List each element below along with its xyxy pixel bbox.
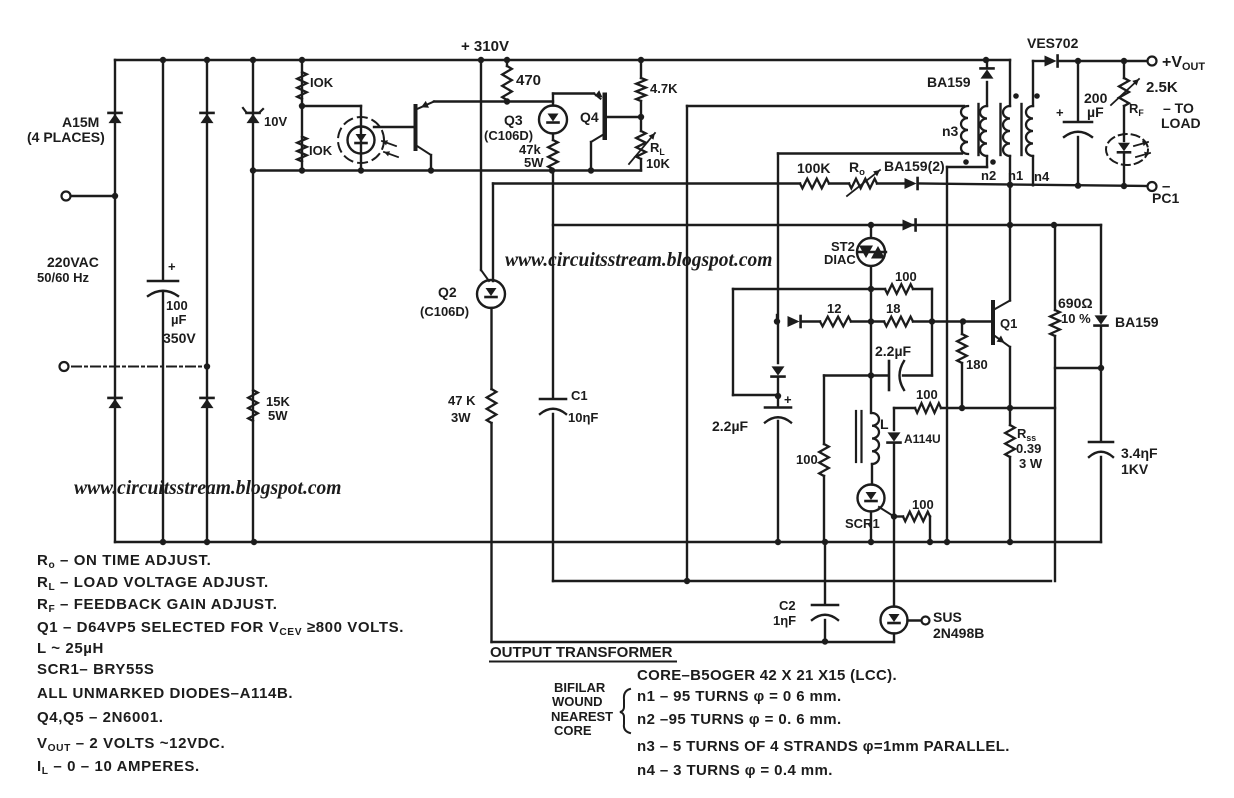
svg-text:Q2: Q2 (438, 284, 457, 300)
svg-text:n2 –95 TURNS φ = 0. 6 mm.: n2 –95 TURNS φ = 0. 6 mm. (637, 711, 842, 728)
svg-text:PC1: PC1 (1152, 190, 1179, 206)
svg-text:100: 100 (166, 298, 188, 313)
svg-text:+ 310V: + 310V (461, 38, 509, 55)
svg-text:BIFILAR: BIFILAR (554, 680, 606, 695)
svg-text:IOK: IOK (309, 143, 333, 158)
svg-text:350V: 350V (163, 330, 196, 346)
svg-text:BA159: BA159 (1115, 314, 1159, 330)
svg-text:220VAC: 220VAC (47, 254, 99, 270)
svg-text:Q1 – D64VP5 SELECTED FOR VCEV: Q1 – D64VP5 SELECTED FOR VCEV ≥800 VOLTS… (37, 619, 404, 638)
svg-text:C2: C2 (779, 598, 796, 613)
svg-text:100: 100 (916, 387, 938, 402)
svg-text:690Ω: 690Ω (1058, 295, 1093, 311)
svg-text:n2: n2 (981, 168, 996, 183)
svg-text:+: + (168, 259, 176, 274)
svg-text:RL: RL (650, 140, 665, 157)
svg-text:LOAD: LOAD (1161, 115, 1201, 131)
svg-text:SCR1– BRY55S: SCR1– BRY55S (37, 661, 155, 678)
svg-text:(C106D): (C106D) (420, 304, 469, 319)
svg-text:2N498B: 2N498B (933, 625, 984, 641)
svg-text:(C106D): (C106D) (484, 128, 533, 143)
svg-text:180: 180 (966, 357, 988, 372)
svg-text:A15M: A15M (62, 114, 99, 130)
svg-text:n3 – 5 TURNS OF 4 STRANDS φ: n3 – 5 TURNS OF 4 STRANDS φ=1mm PARALLEL… (637, 738, 1010, 755)
svg-text:n1: n1 (1008, 168, 1023, 183)
svg-text:Q4: Q4 (580, 109, 599, 125)
svg-text:IL – 0 – 10 AMPERES.: IL – 0 – 10 AMPERES. (37, 758, 200, 777)
svg-text:Ro – ON TIME ADJUST.: Ro – ON TIME ADJUST. (37, 552, 211, 571)
svg-text:A114U: A114U (904, 432, 941, 446)
svg-text:BA159(2): BA159(2) (884, 158, 945, 174)
svg-text:12: 12 (827, 301, 841, 316)
svg-text:2.2µF: 2.2µF (875, 343, 912, 359)
svg-text:+: + (1056, 105, 1064, 120)
svg-text:RF: RF (1129, 101, 1144, 118)
svg-text:1KV: 1KV (1121, 461, 1149, 477)
svg-text:www.circuitsstream.blogspot.co: www.circuitsstream.blogspot.com (74, 478, 341, 499)
svg-text:C1: C1 (571, 388, 588, 403)
svg-text:Q3: Q3 (504, 112, 523, 128)
svg-text:10ηF: 10ηF (568, 410, 598, 425)
svg-text:NEAREST: NEAREST (551, 709, 613, 724)
svg-text:10V: 10V (264, 114, 287, 129)
svg-text:15K: 15K (266, 394, 290, 409)
svg-text:n1 – 95 TURNS φ = 0 6 mm.: n1 – 95 TURNS φ = 0 6 mm. (637, 688, 842, 705)
svg-text:n3: n3 (942, 123, 959, 139)
svg-text:VOUT – 2 VOLTS ~12VDC.: VOUT – 2 VOLTS ~12VDC. (37, 735, 225, 754)
svg-text:µF: µF (171, 312, 186, 327)
svg-text:CORE–B5OGER 42 X 21 X15 (LCC).: CORE–B5OGER 42 X 21 X15 (LCC). (637, 667, 897, 684)
svg-text:100: 100 (796, 452, 818, 467)
svg-text:2.2µF: 2.2µF (712, 418, 749, 434)
svg-text:RF – FEEDBACK GAIN ADJUST.: RF – FEEDBACK GAIN ADJUST. (37, 596, 277, 615)
svg-text:µF: µF (1087, 104, 1104, 120)
svg-text:Ro: Ro (849, 159, 865, 178)
svg-text:1ηF: 1ηF (773, 613, 796, 628)
svg-text:ALL UNMARKED DIODES–A114B.: ALL UNMARKED DIODES–A114B. (37, 685, 293, 702)
svg-text:100K: 100K (797, 160, 830, 176)
svg-text:3W: 3W (451, 410, 471, 425)
svg-text:+: + (784, 392, 792, 407)
svg-text:18: 18 (886, 301, 900, 316)
svg-text:CORE: CORE (554, 723, 592, 738)
svg-text:3 W: 3 W (1019, 456, 1043, 471)
svg-text:IOK: IOK (310, 75, 334, 90)
svg-text:47 K: 47 K (448, 393, 476, 408)
svg-text:SCR1: SCR1 (845, 516, 880, 531)
svg-text:5W: 5W (524, 155, 544, 170)
svg-text:5W: 5W (268, 408, 288, 423)
svg-text:OUTPUT TRANSFORMER: OUTPUT TRANSFORMER (490, 644, 673, 661)
svg-text:n4 – 3 TURNS φ = 0.4 mm.: n4 – 3 TURNS φ = 0.4 mm. (637, 762, 833, 779)
svg-text:10K: 10K (646, 156, 670, 171)
svg-text:DIAC: DIAC (824, 252, 856, 267)
svg-text:RL – LOAD VOLTAGE ADJUST.: RL – LOAD VOLTAGE ADJUST. (37, 574, 269, 593)
svg-text:50/60 Hz: 50/60 Hz (37, 270, 90, 285)
svg-text:+VOUT: +VOUT (1162, 54, 1205, 73)
svg-text:Q4,Q5 – 2N6001.: Q4,Q5 – 2N6001. (37, 709, 164, 726)
svg-text:L: L (880, 416, 889, 432)
svg-text:SUS: SUS (933, 609, 962, 625)
svg-text:VES702: VES702 (1027, 35, 1079, 51)
svg-text:0.39: 0.39 (1016, 441, 1041, 456)
svg-text:www.circuitsstream.blogspot.co: www.circuitsstream.blogspot.com (505, 250, 772, 271)
svg-text:3.4ηF: 3.4ηF (1121, 445, 1158, 461)
svg-text:100: 100 (895, 269, 917, 284)
svg-text:100: 100 (912, 497, 934, 512)
svg-text:2.5K: 2.5K (1146, 79, 1178, 96)
svg-text:10 %: 10 % (1061, 311, 1091, 326)
svg-text:4.7K: 4.7K (650, 81, 678, 96)
svg-text:n4: n4 (1034, 169, 1050, 184)
svg-text:470: 470 (516, 72, 541, 89)
svg-text:BA159: BA159 (927, 74, 971, 90)
svg-text:L ~ 25µH: L ~ 25µH (37, 640, 104, 657)
svg-text:Q1: Q1 (1000, 316, 1017, 331)
svg-text:– TO: – TO (1163, 100, 1194, 116)
svg-text:(4 PLACES): (4 PLACES) (27, 129, 105, 145)
svg-text:WOUND: WOUND (552, 694, 603, 709)
